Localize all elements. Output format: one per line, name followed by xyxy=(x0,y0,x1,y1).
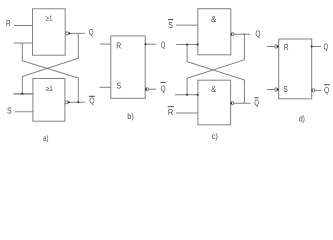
overline of Qbar label d xyxy=(324,84,330,86)
svg-text:≥1: ≥1 xyxy=(46,16,53,23)
output bubble G3 xyxy=(231,33,234,36)
wire Qbar output b xyxy=(148,88,156,90)
latch box d xyxy=(279,39,312,99)
overline of Qbar label b xyxy=(161,81,166,83)
wire G2 upper input stub xyxy=(13,93,33,95)
wire feedback G2 out to G1 input xyxy=(22,43,78,102)
junction dot a Qbar tee xyxy=(77,101,79,103)
wire R input b xyxy=(100,43,111,45)
svg-text:&: & xyxy=(211,85,217,94)
wire Q output c xyxy=(234,33,251,35)
wire S input d xyxy=(267,89,275,91)
NAND gate G3 xyxy=(198,9,231,55)
svg-text:S: S xyxy=(117,80,122,90)
svg-text:c): c) xyxy=(212,131,219,141)
svg-text:d): d) xyxy=(299,114,305,124)
svg-text:Q: Q xyxy=(324,42,329,52)
wire feedback G4 out to G3 input xyxy=(187,45,244,104)
wire Q output b xyxy=(145,43,156,45)
junction dot d R bubble xyxy=(277,46,279,48)
wire G3 lower input stub xyxy=(177,44,198,46)
wire S input b xyxy=(100,86,111,88)
junction dot b Q xyxy=(145,43,147,45)
latch box b xyxy=(111,36,145,98)
wire S input xyxy=(15,111,33,113)
output bubble G2 xyxy=(65,101,68,104)
svg-text:R: R xyxy=(168,107,173,117)
junction dot c Q tee xyxy=(244,33,246,35)
overline of Sbar label xyxy=(168,19,173,21)
svg-text:Q: Q xyxy=(254,97,259,107)
wire Qbar output c xyxy=(234,102,251,104)
junction dot b bubble xyxy=(145,88,147,90)
wire G1 lower input stub xyxy=(14,42,33,44)
junction dot a bubble1 out xyxy=(68,32,70,34)
svg-text:Q: Q xyxy=(161,39,166,49)
wire feedback G1 out to G2 input xyxy=(22,33,78,93)
wire Q output d xyxy=(312,46,321,48)
overline of Qbar label c xyxy=(254,97,258,99)
svg-text:R: R xyxy=(6,18,11,28)
input bubble R d xyxy=(275,45,278,48)
svg-text:S: S xyxy=(283,84,288,94)
junction dot d Qbar bubble xyxy=(311,90,313,92)
junction dot c stub tee xyxy=(186,94,188,96)
output bubble G1 xyxy=(66,32,69,35)
junction dot c bubble3 xyxy=(231,33,233,35)
svg-text:R: R xyxy=(116,41,121,51)
wire Q output xyxy=(69,32,85,34)
svg-text:Q: Q xyxy=(255,29,260,39)
svg-text:Q: Q xyxy=(89,96,94,106)
svg-text:≥1: ≥1 xyxy=(45,84,53,93)
NOR gate G2 xyxy=(33,79,65,122)
output bubble b xyxy=(145,88,148,91)
wire G4 upper input stub xyxy=(175,94,198,96)
junction dot c bubble4 xyxy=(230,102,232,104)
junction dot c stub gate end xyxy=(197,94,199,96)
wire R input d xyxy=(267,46,275,48)
svg-text:a): a) xyxy=(43,133,48,143)
svg-text:Q: Q xyxy=(161,84,166,94)
junction dot c in2 tee xyxy=(186,44,188,46)
svg-text:S: S xyxy=(168,20,173,30)
junction dot a stub tee xyxy=(21,93,23,95)
output bubble G4 xyxy=(231,102,234,105)
NOR gate G1 xyxy=(33,9,66,55)
wire Rbar input xyxy=(176,112,198,114)
wire R input xyxy=(14,25,32,27)
overline of Rbar label xyxy=(168,106,174,108)
input bubble S d xyxy=(275,88,278,91)
junction dot d Q xyxy=(311,46,313,48)
svg-text:Q: Q xyxy=(324,85,329,95)
junction dot c in2 gate end xyxy=(197,44,199,46)
output bubble d xyxy=(312,89,315,92)
junction dot d S bubble xyxy=(277,89,279,91)
svg-text:b): b) xyxy=(127,111,134,121)
svg-text:&: & xyxy=(211,15,217,24)
NAND gate G4 xyxy=(198,80,231,125)
wire feedback G3 out to G4 input xyxy=(187,34,244,95)
wire Qbar output d xyxy=(315,89,321,91)
wire Sbar input xyxy=(176,24,198,26)
overline of Qbar label a xyxy=(89,95,95,97)
svg-text:R: R xyxy=(284,42,289,52)
svg-text:Q: Q xyxy=(89,27,94,37)
wire Qbar output xyxy=(68,101,85,103)
junction dot a bubble2 out xyxy=(68,101,70,103)
svg-text:S: S xyxy=(7,106,12,116)
